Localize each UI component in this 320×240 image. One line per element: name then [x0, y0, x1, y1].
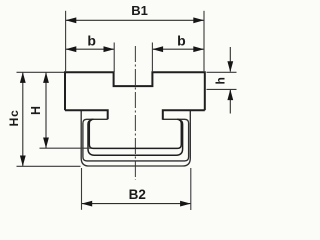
- svg-text:Hc: Hc: [7, 109, 21, 126]
- svg-text:b: b: [177, 33, 186, 49]
- svg-text:H: H: [29, 106, 43, 115]
- svg-text:B1: B1: [131, 3, 148, 18]
- svg-text:h: h: [214, 77, 228, 84]
- svg-text:b: b: [87, 32, 96, 48]
- svg-text:B2: B2: [129, 187, 146, 202]
